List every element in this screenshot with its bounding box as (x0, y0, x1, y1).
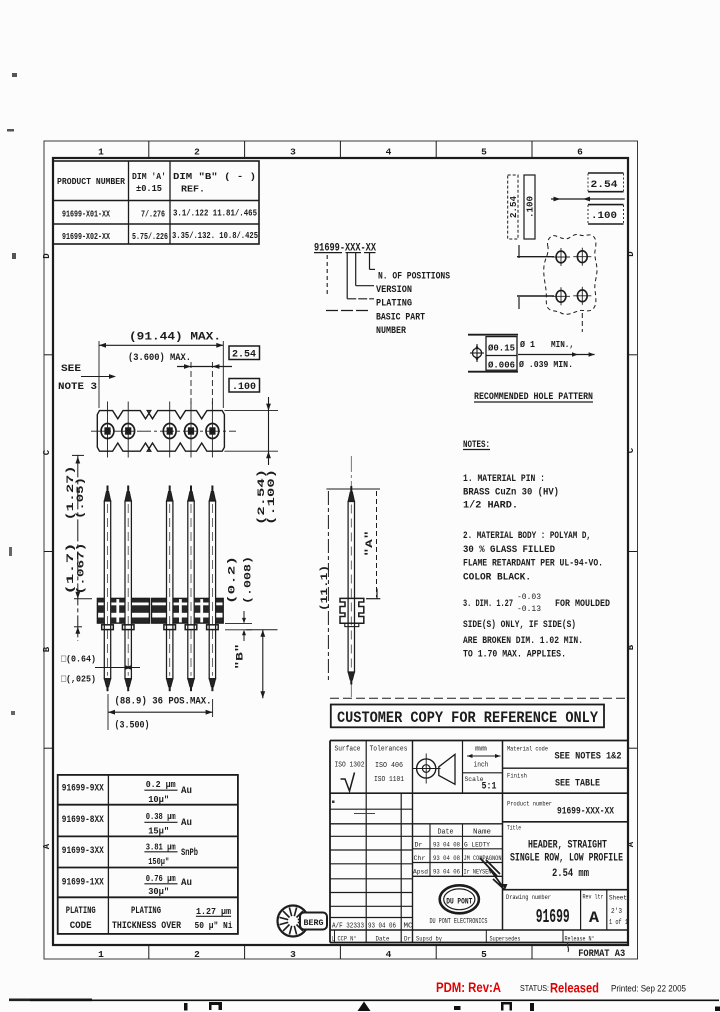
svg-text:REF.: REF. (181, 184, 205, 195)
svg-text:93 04 06: 93 04 06 (368, 923, 396, 931)
svg-text:SINGLE ROW, LOW PROFILE: SINGLE ROW, LOW PROFILE (510, 853, 623, 865)
top view pitch dim (177, 366, 232, 368)
side view centerline (350, 456, 352, 700)
svg-text:Dr: Dr (404, 936, 411, 943)
svg-text:L: L (332, 936, 335, 943)
svg-text:(88.9) 36 POS.MAX.: (88.9) 36 POS.MAX. (115, 696, 212, 708)
title block borders (330, 740, 628, 742)
svg-text:91699-X02-XX: 91699-X02-XX (62, 232, 110, 242)
svg-text:93 04 06: 93 04 06 (433, 869, 460, 876)
svg-text:91699-X01-XX: 91699-X01-XX (62, 210, 110, 220)
svg-text:(0.2): (0.2) (227, 556, 239, 604)
hole pattern dim boxes vertical (508, 175, 518, 239)
revision area specks (332, 801, 335, 804)
svg-text:THICKNESS OVER: THICKNESS OVER (112, 921, 181, 932)
svg-text:Finish: Finish (507, 773, 527, 780)
svg-text:.100: .100 (232, 382, 256, 393)
top view body outline (97, 411, 224, 452)
svg-text:(3.600) MAX.: (3.600) MAX. (128, 352, 191, 364)
svg-text:3. DIM. 1.27: 3. DIM. 1.27 (463, 598, 513, 610)
svg-text:93 04 08: 93 04 08 (433, 842, 460, 849)
svg-text:4: 4 (386, 147, 392, 158)
svg-text:STATUS:: STATUS: (520, 983, 549, 993)
svg-text:Dr: Dr (415, 842, 423, 849)
svg-text:4: 4 (386, 949, 392, 960)
svg-text:A: A (589, 909, 599, 927)
svg-text:±0.15: ±0.15 (136, 183, 162, 194)
svg-text:D: D (626, 251, 636, 257)
svg-text:Printed: Sep 22 2005: Printed: Sep 22 2005 (611, 984, 686, 995)
svg-text:1. MATERIAL PIN :: 1. MATERIAL PIN : (463, 473, 545, 485)
dupont logo (440, 885, 479, 913)
zone ticks top/bottom (148, 141, 150, 158)
svg-text:91699-1XX: 91699-1XX (62, 878, 104, 889)
svg-text:0.76 μm: 0.76 μm (146, 873, 176, 884)
bottom scan bar (9, 998, 92, 1001)
svg-text:2.54 mm: 2.54 mm (552, 868, 589, 880)
svg-text:5:1: 5:1 (482, 782, 497, 793)
svg-text:inch: inch (474, 762, 489, 770)
svg-text:HEADER, STRAIGHT: HEADER, STRAIGHT (528, 840, 607, 852)
board line (330, 697, 625, 699)
svg-text:C: C (626, 447, 636, 453)
svg-text:A: A (42, 843, 52, 849)
side view pin (350, 486, 352, 493)
top view centerline (91, 430, 236, 432)
svg-text:B: B (626, 644, 636, 650)
inner frame (53, 158, 628, 945)
svg-text:1: 1 (98, 147, 104, 158)
svg-text:VERSION: VERSION (376, 285, 412, 296)
svg-text:DIM 'A': DIM 'A' (132, 171, 166, 182)
leader lines to holes (518, 245, 520, 258)
stray mark below release (567, 942, 568, 952)
dim box 2.54 (588, 172, 624, 174)
svg-text:FLAME RETARDANT PER UL-94-VO.: FLAME RETARDANT PER UL-94-VO. (463, 558, 603, 570)
svg-text:CODE: CODE (70, 921, 92, 932)
svg-text:DIM "B" ( - ): DIM "B" ( - ) (173, 171, 256, 182)
svg-text:PDM: Rev:A: PDM: Rev:A (436, 980, 501, 995)
front view body blocks (97, 598, 104, 602)
svg-text:(.067): (.067) (75, 543, 87, 595)
svg-text:Supsd by: Supsd by (416, 936, 442, 943)
svg-text:Ø .039 MIN.: Ø .039 MIN. (519, 359, 573, 370)
svg-text:3.1/.122 11.81/.465: 3.1/.122 11.81/.465 (173, 209, 257, 219)
svg-text:91699-8XX: 91699-8XX (62, 815, 104, 826)
svg-text:G LEDTY: G LEDTY (464, 842, 490, 849)
projection symbol (417, 759, 436, 778)
svg-text:RECOMMENDED HOLE PATTERN: RECOMMENDED HOLE PATTERN (474, 391, 593, 403)
svg-text:SnPb: SnPb (181, 847, 198, 859)
small dupont logo (278, 906, 309, 937)
svg-text:D: D (42, 253, 52, 259)
svg-text:6: 6 (577, 147, 583, 158)
svg-text:2. MATERIAL BODY : POLYAM D,: 2. MATERIAL BODY : POLYAM D, (463, 530, 591, 542)
svg-text:BRASS CuZn 30 (HV): BRASS CuZn 30 (HV) (463, 487, 559, 499)
customer copy banner (331, 705, 604, 728)
svg-text:Au: Au (181, 786, 192, 797)
product table (53, 161, 259, 244)
svg-text:A: A (626, 841, 636, 847)
left dims (1.27)/(1.7) (72, 454, 84, 456)
svg-text:Material code: Material code (507, 746, 548, 753)
svg-text:PLATING: PLATING (66, 906, 96, 917)
dim box .100 (588, 204, 624, 206)
svg-text:N. OF POSITIONS: N. OF POSITIONS (378, 272, 450, 283)
svg-text:30μ″: 30μ″ (148, 886, 169, 897)
svg-text:7/.276: 7/.276 (141, 210, 165, 220)
dim A (376, 491, 378, 597)
zone ticks sides (44, 354, 53, 356)
svg-text:5: 5 (481, 949, 487, 960)
svg-text:(91.44) MAX.: (91.44) MAX. (129, 332, 221, 344)
svg-text:FOR MOULDED: FOR MOULDED (555, 598, 610, 610)
svg-text:5: 5 (481, 147, 487, 158)
svg-text:0.2 μm: 0.2 μm (146, 779, 176, 790)
svg-text:3: 3 (290, 147, 296, 158)
svg-text:BASIC PART: BASIC PART (376, 313, 425, 324)
svg-text:SIDE(S) ONLY, IF SIDE(S): SIDE(S) ONLY, IF SIDE(S) (463, 619, 576, 631)
top view height dim (224, 410, 278, 412)
svg-text:-0.03: -0.03 (517, 593, 541, 602)
svg-text:Ø.006: Ø.006 (488, 361, 515, 371)
svg-text:(.100): (.100) (266, 469, 278, 525)
svg-text:"A": "A" (364, 531, 376, 557)
svg-text:NUMBER: NUMBER (376, 326, 406, 337)
svg-text:A/F 32333: A/F 32333 (332, 923, 364, 931)
svg-text:Supersedes: Supersedes (490, 936, 521, 943)
svg-text:ISO 1101: ISO 1101 (374, 776, 404, 784)
body feet (102, 625, 114, 630)
svg-text:C: C (42, 449, 52, 455)
signature scribble (480, 858, 505, 890)
svg-text:1/2 HARD.: 1/2 HARD. (463, 500, 518, 512)
svg-text:0.38 μm: 0.38 μm (146, 811, 176, 822)
svg-text:CUSTOMER COPY FOR REFERENCE ON: CUSTOMER COPY FOR REFERENCE ONLY (337, 709, 599, 727)
svg-text:(.05): (.05) (75, 477, 87, 519)
svg-text:Au: Au (181, 818, 192, 829)
outer frame (44, 141, 638, 959)
top view pins (107, 402, 109, 458)
side view top tick (326, 488, 380, 490)
svg-text:2'3: 2'3 (611, 908, 622, 916)
svg-text:-0.13: -0.13 (517, 605, 541, 614)
svg-text:CCP N°: CCP N° (338, 936, 357, 943)
svg-text:MC: MC (404, 923, 413, 931)
svg-text:Chr: Chr (414, 855, 426, 862)
svg-text:Surface: Surface (335, 746, 361, 754)
svg-text:PLATING: PLATING (131, 906, 161, 917)
svg-text:91699-XXX-XX: 91699-XXX-XX (557, 807, 614, 818)
dim boxes 2.54/.100 (top view) (229, 346, 260, 360)
svg-text:DU PONT: DU PONT (446, 897, 472, 907)
holes (556, 251, 566, 263)
svg-text:□(0.64): □(0.64) (61, 654, 96, 665)
svg-text:1.27 μm: 1.27 μm (196, 906, 231, 917)
svg-text:(1.27): (1.27) (65, 466, 77, 521)
svg-text:2: 2 (194, 949, 200, 960)
svg-text:FORMAT A3: FORMAT A3 (578, 948, 625, 960)
svg-text:1: 1 (98, 949, 104, 960)
svg-text:Ø 1: Ø 1 (520, 339, 535, 350)
svg-text:mm: mm (475, 746, 488, 754)
svg-text:93 04 08: 93 04 08 (433, 855, 460, 862)
svg-text:91699: 91699 (536, 906, 570, 928)
svg-text:Released: Released (550, 980, 599, 996)
svg-text:ISO 1302: ISO 1302 (335, 762, 365, 770)
svg-text:COLOR BLACK.: COLOR BLACK. (463, 572, 531, 584)
plating table (58, 775, 238, 934)
svg-text:B: B (42, 646, 52, 652)
svg-text:Date: Date (438, 829, 454, 837)
svg-text:2: 2 (194, 147, 200, 158)
svg-text:NOTE 3: NOTE 3 (58, 381, 97, 393)
svg-text:Ø0.15: Ø0.15 (488, 344, 515, 354)
svg-text:Date: Date (376, 936, 390, 943)
svg-text:.100: .100 (526, 196, 536, 218)
svg-text:Title: Title (507, 825, 521, 832)
svg-text:ARE BROKEN DIM. 1.02 MIN.: ARE BROKEN DIM. 1.02 MIN. (463, 635, 583, 647)
svg-text:2.54: 2.54 (591, 179, 618, 191)
svg-text:10μ″: 10μ″ (148, 794, 169, 805)
svg-text:TO 1.70 MAX. APPLIES.: TO 1.70 MAX. APPLIES. (463, 649, 566, 661)
svg-text:□(,025): □(,025) (61, 674, 96, 685)
svg-text:Sheet: Sheet (609, 895, 627, 902)
svg-text:(.008): (.008) (243, 556, 255, 604)
svg-text:2.54: 2.54 (509, 195, 519, 218)
svg-text:3.35/.132. 10.8/.425: 3.35/.132. 10.8/.425 (172, 231, 258, 241)
svg-text:PLATING: PLATING (376, 299, 412, 310)
svg-text:PRODUCT NUMBER: PRODUCT NUMBER (57, 176, 125, 187)
svg-text:91699-3XX: 91699-3XX (62, 846, 104, 857)
svg-text:Product number: Product number (507, 801, 552, 808)
svg-text:Rev ltr: Rev ltr (583, 894, 604, 901)
svg-text:SEE TABLE: SEE TABLE (555, 778, 600, 790)
svg-text:Apsd: Apsd (413, 869, 428, 876)
svg-text:SEE: SEE (61, 363, 81, 375)
svg-text:1 of 1: 1 of 1 (609, 919, 628, 927)
svg-text:5.75/.226: 5.75/.226 (132, 232, 168, 242)
svg-text:Ir NEYSEN: Ir NEYSEN (464, 869, 492, 876)
svg-text:Drawing number: Drawing number (506, 894, 551, 901)
svg-text:91699-9XX: 91699-9XX (62, 784, 104, 795)
hole pattern pitch dim (551, 198, 625, 200)
svg-text:2.54: 2.54 (232, 350, 256, 361)
margin specks (12, 73, 17, 77)
svg-text:Tolerances: Tolerances (370, 746, 408, 754)
svg-text:DU PONT ELECTRONICS: DU PONT ELECTRONICS (430, 918, 488, 926)
svg-text:50 μ″ Ni: 50 μ″ Ni (195, 920, 233, 931)
svg-text:15μ″: 15μ″ (148, 826, 169, 837)
svg-text:BERG: BERG (304, 919, 324, 928)
svg-text:3.81 μm: 3.81 μm (146, 842, 176, 853)
svg-text:ISO 406: ISO 406 (375, 762, 403, 770)
svg-text:(11.1): (11.1) (319, 565, 331, 611)
svg-text:(3.500): (3.500) (115, 720, 150, 732)
svg-text:3: 3 (290, 949, 296, 960)
front view pins (107, 486, 109, 493)
svg-text:MIN.,: MIN., (551, 339, 574, 350)
svg-text:150μ″: 150μ″ (148, 856, 169, 867)
svg-text:.100: .100 (591, 210, 617, 222)
svg-text:"B": "B" (234, 644, 246, 670)
svg-text:(1.7): (1.7) (65, 543, 77, 595)
svg-text:Release N°: Release N° (565, 936, 595, 943)
svg-text:Au: Au (181, 878, 192, 889)
left overall pin dim (327, 491, 329, 680)
svg-text:SEE NOTES 1&2: SEE NOTES 1&2 (555, 751, 622, 763)
svg-text:30 % GLASS FILLED: 30 % GLASS FILLED (463, 544, 555, 556)
side view body profile (340, 598, 364, 623)
svg-text:Name: Name (473, 829, 491, 837)
tolerance frame (468, 334, 518, 336)
body blob outline (544, 234, 597, 314)
